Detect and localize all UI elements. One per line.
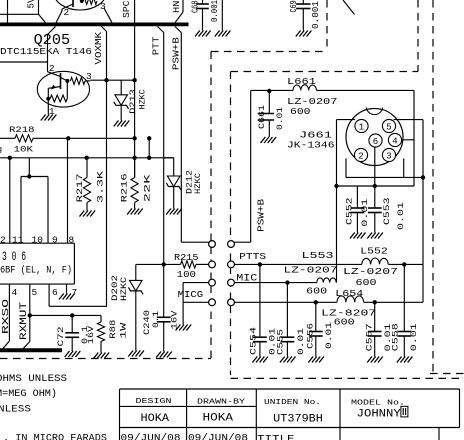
svg-text:0.01: 0.01: [396, 202, 406, 230]
svg-text:10: 10: [32, 234, 44, 245]
svg-text:0.1: 0.1: [151, 311, 161, 328]
svg-text:PSW+B: PSW+B: [171, 37, 182, 70]
svg-text:R215: R215: [174, 253, 199, 263]
svg-text:g: g: [0, 145, 2, 155]
svg-text:UNIDEN No.: UNIDEN No.: [264, 399, 321, 407]
svg-text:0.01: 0.01: [409, 323, 419, 351]
svg-text:M=MEG OHM): M=MEG OHM): [0, 388, 57, 400]
svg-text:PTTS: PTTS: [239, 252, 266, 262]
svg-text:C552: C552: [345, 198, 355, 226]
svg-text:RXSO: RXSO: [0, 299, 11, 334]
svg-text:0.01: 0.01: [360, 199, 370, 227]
svg-text:LZ-0207: LZ-0207: [284, 265, 338, 276]
svg-text:R88: R88: [108, 320, 118, 339]
svg-text:L661: L661: [287, 76, 316, 87]
svg-text:C553: C553: [382, 198, 392, 226]
svg-text:JK-1346: JK-1346: [287, 140, 335, 151]
svg-text:NLESS: NLESS: [0, 405, 31, 416]
svg-text:HOKA: HOKA: [141, 413, 170, 425]
svg-text:09/JUN/08: 09/JUN/08: [188, 433, 248, 440]
svg-text:PTT: PTT: [151, 36, 162, 55]
svg-text:UT379BH: UT379BH: [273, 413, 323, 425]
svg-text:6: 6: [373, 137, 378, 147]
svg-text:1W: 1W: [119, 321, 129, 338]
svg-text:600: 600: [306, 286, 327, 297]
svg-text:. IN MICRO FARADS: . IN MICRO FARADS: [3, 434, 107, 440]
svg-text:5: 5: [32, 287, 38, 298]
svg-text:PSW+B: PSW+B: [255, 199, 266, 232]
svg-text:SPC: SPC: [121, 0, 132, 18]
svg-text:R216: R216: [120, 173, 130, 202]
svg-text:C558: C558: [390, 323, 400, 351]
svg-text:HOKA: HOKA: [203, 413, 234, 425]
svg-text:4: 4: [392, 136, 397, 146]
svg-text:L553: L553: [302, 250, 334, 261]
svg-text:R218: R218: [9, 125, 35, 135]
svg-text:TITLE: TITLE: [257, 435, 295, 440]
svg-text:09/JUN/08: 09/JUN/08: [121, 433, 181, 440]
svg-text:C69: C69: [289, 0, 299, 12]
svg-text:C554: C554: [248, 327, 258, 355]
svg-text:OHMS UNLESS: OHMS UNLESS: [0, 374, 67, 385]
svg-text:HZKC: HZKC: [137, 89, 147, 109]
svg-text:5V: 5V: [26, 0, 37, 9]
svg-text:12: 12: [0, 234, 6, 245]
svg-text:C555: C555: [276, 329, 286, 355]
svg-text:0.001: 0.001: [311, 1, 321, 29]
svg-text:22K: 22K: [142, 173, 152, 203]
svg-text:1: 1: [359, 122, 364, 132]
svg-text:600: 600: [356, 277, 377, 288]
svg-text:HZKC: HZKC: [193, 173, 203, 194]
svg-text:5: 5: [386, 122, 391, 132]
svg-text:JOHNNY: JOHNNY: [357, 409, 401, 421]
svg-text:0.01: 0.01: [324, 322, 334, 349]
svg-text:C557: C557: [364, 323, 374, 351]
svg-text:HN: HN: [171, 1, 182, 14]
svg-text:MODEL No.: MODEL No.: [351, 400, 405, 408]
svg-text:600: 600: [334, 317, 355, 328]
svg-text:MIC: MIC: [236, 274, 257, 285]
svg-text:L552: L552: [360, 246, 388, 257]
svg-text:LZ-0207: LZ-0207: [343, 266, 398, 277]
svg-text:6: 6: [52, 287, 58, 298]
svg-text:C68: C68: [190, 1, 200, 14]
svg-text:9: 9: [52, 234, 58, 245]
svg-text:VOXMK: VOXMK: [93, 32, 104, 65]
svg-text:10K: 10K: [14, 144, 35, 154]
svg-text:L654: L654: [335, 288, 363, 299]
svg-text:3: 3: [386, 151, 391, 161]
svg-text:DESIGN: DESIGN: [136, 398, 172, 406]
svg-text:2: 2: [358, 151, 363, 161]
svg-text:16V: 16V: [86, 325, 96, 344]
svg-text:RXMUT: RXMUT: [19, 302, 30, 340]
svg-text:DTC115EKA T146: DTC115EKA T146: [0, 46, 92, 57]
svg-text:2: 2: [64, 7, 70, 18]
svg-text:11: 11: [12, 234, 24, 245]
svg-text:C72: C72: [56, 327, 66, 347]
svg-text:3.3K: 3.3K: [96, 170, 106, 203]
svg-text:DRAWN-BY: DRAWN-BY: [197, 398, 246, 406]
svg-text:C556: C556: [305, 323, 315, 349]
svg-text:0.001: 0.001: [210, 0, 220, 22]
svg-text:6BF (EL, N, F): 6BF (EL, N, F): [0, 265, 72, 276]
svg-text:8: 8: [69, 234, 75, 245]
svg-text:0.01: 0.01: [275, 107, 285, 130]
svg-text:MICG: MICG: [178, 290, 204, 300]
svg-text:4: 4: [12, 287, 18, 298]
svg-text:600: 600: [290, 106, 311, 117]
svg-text:3 0 6: 3 0 6: [2, 250, 26, 264]
svg-text:100: 100: [177, 270, 196, 280]
svg-text:0.01: 0.01: [296, 328, 306, 355]
svg-text:C661: C661: [257, 105, 267, 129]
svg-text:R217: R217: [75, 173, 85, 202]
svg-text:HZKC: HZKC: [119, 277, 129, 301]
